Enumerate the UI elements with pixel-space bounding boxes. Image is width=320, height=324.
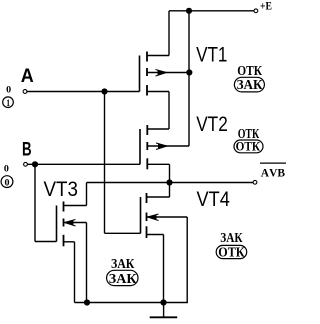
transistor VT2 substrate lead xyxy=(147,145,189,147)
transistor VT1 gate xyxy=(139,56,141,92)
terminal input B xyxy=(24,162,28,166)
transistor VT3 drain lead xyxy=(64,205,87,207)
node B junction xyxy=(32,161,38,167)
state VT3 oval ZAK xyxy=(107,270,138,286)
transistor VT3 substrate lead xyxy=(64,222,87,224)
terminal output xyxy=(253,180,257,184)
state VT1 oval ZAK xyxy=(234,77,264,92)
label output AVB xyxy=(260,163,286,180)
transistor VT2 channel xyxy=(146,125,148,169)
transistor VT2 drain lead xyxy=(147,128,169,130)
svg-text:VT2: VT2 xyxy=(196,113,228,136)
svg-text:VT1: VT1 xyxy=(196,44,227,67)
wire VT3 source drop xyxy=(74,242,76,303)
ground xyxy=(150,303,178,318)
svg-text:ОТК: ОТК xyxy=(236,138,261,153)
transistor VT3 source lead xyxy=(64,241,75,243)
wire VT1 source to VT2 drain xyxy=(168,92,170,130)
svg-text:0: 0 xyxy=(5,178,10,188)
svg-text:A: A xyxy=(21,65,34,87)
transistor VT4 drain lead xyxy=(147,196,170,198)
node output junction xyxy=(166,179,172,185)
transistor VT3 substrate arrow xyxy=(65,220,76,227)
transistor VT2 substrate arrow xyxy=(156,143,167,150)
wire A to VT4 gate horizontal xyxy=(105,232,141,234)
svg-text:B: B xyxy=(22,139,32,160)
transistor VT2 source lead xyxy=(147,163,169,165)
transistor VT3 gate xyxy=(56,206,58,242)
transistor VT1 drain lead xyxy=(147,55,169,57)
transistor VT4 source lead xyxy=(147,234,164,236)
node ground rail junction xyxy=(160,299,166,305)
wire input A xyxy=(27,91,140,93)
wire VT2 source to output xyxy=(169,164,171,182)
transistor VT1 substrate lead xyxy=(147,72,189,74)
svg-text:0: 0 xyxy=(4,164,9,174)
node A junction xyxy=(101,88,107,94)
state VT2 oval OTK xyxy=(234,138,263,153)
svg-text:ЗАК: ЗАК xyxy=(109,271,137,286)
wire input B xyxy=(28,163,141,165)
transistor VT3 channel xyxy=(63,202,65,247)
svg-text:+Е: +Е xyxy=(260,0,272,12)
svg-text:АVВ: АVВ xyxy=(261,168,286,180)
wire bottom rail xyxy=(75,302,188,304)
terminal +E xyxy=(254,9,258,13)
wire VT4 drain riser xyxy=(169,183,171,198)
state VT4 oval OTK xyxy=(216,245,247,260)
transistor VT1 source lead xyxy=(147,91,169,93)
wire A to VT4 gate vertical xyxy=(104,92,106,234)
transistor VT2 gate xyxy=(139,129,141,164)
wire +E top rail xyxy=(169,10,254,12)
node VT3 substrate rail junction xyxy=(84,299,90,305)
node VT1 substrate junction xyxy=(186,69,192,75)
terminal input A xyxy=(23,90,27,94)
wire VT3 substrate drop xyxy=(86,223,88,303)
wire VT4 source drop xyxy=(163,235,165,303)
svg-text:1: 1 xyxy=(6,99,10,109)
transistor VT4 substrate arrow xyxy=(148,214,159,221)
node top rail junction xyxy=(186,8,192,14)
value B circled 0 xyxy=(1,176,13,189)
value A circled 1 xyxy=(3,97,14,109)
transistor VT4 channel xyxy=(146,193,148,238)
wire VT4 substrate drop xyxy=(186,217,188,303)
wire B to VT3 gate vertical xyxy=(34,164,36,241)
transistor VT1 substrate arrow xyxy=(156,70,167,77)
wire output net xyxy=(87,182,254,184)
transistor VT4 substrate lead xyxy=(147,216,188,218)
svg-text:ЗАК: ЗАК xyxy=(237,77,263,92)
svg-text:0: 0 xyxy=(6,85,11,95)
transistor VT1 channel xyxy=(146,52,148,96)
svg-text:VT3: VT3 xyxy=(44,178,79,201)
wire B to VT3 gate horizontal xyxy=(35,241,57,243)
wire substrate rail xyxy=(188,11,190,146)
svg-text:ОТК: ОТК xyxy=(218,245,244,260)
svg-text:VT4: VT4 xyxy=(197,188,231,211)
wire VT3 drain riser xyxy=(86,183,88,206)
transistor VT4 gate xyxy=(140,197,142,233)
wire VT1 drain riser xyxy=(168,11,170,56)
